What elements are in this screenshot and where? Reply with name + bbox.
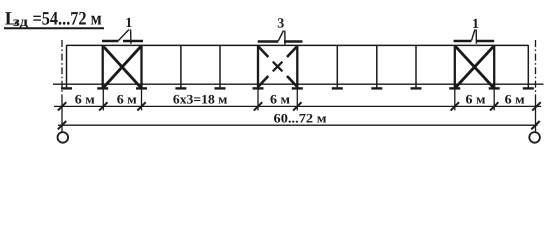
svg-text:6 м: 6 м [466, 92, 486, 107]
svg-text:1: 1 [472, 17, 479, 32]
svg-text:6x3=18 м: 6x3=18 м [173, 92, 228, 107]
svg-text:6 м: 6 м [270, 92, 290, 107]
svg-text:6 м: 6 м [505, 92, 525, 107]
svg-text:6 м: 6 м [75, 92, 95, 107]
svg-text:6 м: 6 м [117, 92, 137, 107]
svg-text:60...72 м: 60...72 м [274, 111, 327, 126]
svg-text:=54...72 м: =54...72 м [33, 9, 102, 30]
svg-text:зд: зд [13, 15, 28, 30]
svg-text:1: 1 [125, 16, 132, 31]
svg-text:3: 3 [277, 16, 284, 31]
